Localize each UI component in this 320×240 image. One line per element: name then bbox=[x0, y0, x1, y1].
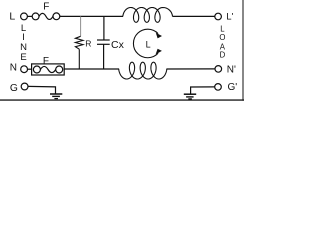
terminal L bbox=[21, 13, 28, 20]
fuse F2 (neutral fuse, boxed) bbox=[32, 64, 65, 75]
svg-text:Cx: Cx bbox=[111, 39, 125, 51]
inductor L bottom winding bbox=[119, 62, 167, 79]
svg-text:F: F bbox=[43, 56, 49, 67]
capacitor Cx bbox=[97, 16, 110, 69]
vertical text LOAD bbox=[219, 25, 225, 60]
ground (right) bbox=[184, 94, 196, 99]
svg-text:D: D bbox=[220, 50, 226, 59]
border bottom bbox=[0, 99, 244, 100]
svg-text:O: O bbox=[219, 33, 225, 42]
inductor L top winding bbox=[123, 8, 173, 23]
svg-text:L: L bbox=[146, 39, 151, 49]
terminal N bbox=[21, 66, 28, 73]
wire top rail bbox=[60, 15, 123, 17]
arrowhead bottom bbox=[156, 49, 162, 55]
svg-text:G': G' bbox=[228, 82, 238, 93]
ground (left) bbox=[50, 94, 62, 99]
svg-text:L: L bbox=[9, 10, 15, 22]
svg-text:E: E bbox=[20, 52, 26, 63]
choke core symbol (circular arrow) bbox=[133, 29, 158, 58]
wire bbox=[28, 68, 32, 70]
terminal L' bbox=[215, 13, 222, 20]
terminal N' bbox=[215, 66, 222, 73]
fuse F1 (line fuse) bbox=[32, 13, 60, 20]
wire bbox=[173, 15, 215, 17]
border right bbox=[243, 0, 244, 101]
wire bbox=[166, 68, 215, 70]
wire bbox=[27, 15, 32, 17]
svg-text:F: F bbox=[43, 2, 49, 13]
arrowhead top bbox=[156, 33, 162, 39]
vertical text LINE bbox=[20, 23, 27, 63]
svg-text:N': N' bbox=[227, 64, 236, 75]
svg-text:R: R bbox=[85, 38, 91, 48]
terminal G' bbox=[215, 84, 222, 91]
svg-text:G: G bbox=[10, 83, 18, 94]
wire bbox=[191, 87, 215, 94]
wire bbox=[28, 86, 56, 94]
wire bottom rail bbox=[64, 68, 119, 70]
terminal G bbox=[21, 83, 28, 90]
svg-text:L': L' bbox=[226, 12, 233, 23]
resistor R bbox=[75, 16, 83, 69]
svg-text:N: N bbox=[10, 63, 17, 74]
